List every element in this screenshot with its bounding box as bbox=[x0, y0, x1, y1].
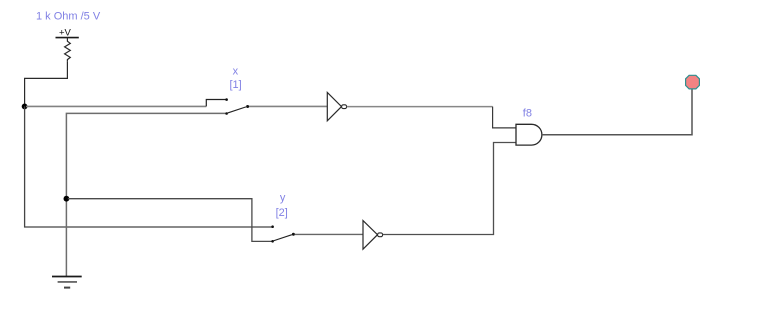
svg-text:y: y bbox=[280, 192, 286, 204]
svg-text:1 k Ohm /5 V: 1 k Ohm /5 V bbox=[36, 11, 101, 23]
svg-text:[2]: [2] bbox=[276, 207, 288, 219]
svg-text:f8: f8 bbox=[523, 108, 532, 120]
svg-text:x: x bbox=[233, 65, 239, 77]
svg-text:[1]: [1] bbox=[229, 79, 241, 91]
